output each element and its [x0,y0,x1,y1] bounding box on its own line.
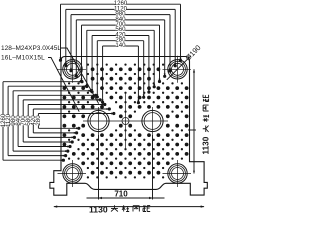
svg-text:16L–M10X15L: 16L–M10X15L [1,55,45,62]
svg-text:710: 710 [114,190,128,199]
svg-text:128–M24XP3.0X45L: 128–M24XP3.0X45L [1,45,61,52]
svg-text:280: 280 [35,115,42,126]
svg-text:1130: 1130 [89,205,108,215]
svg-text:1130: 1130 [202,136,211,154]
label 16-M10 leader [48,58,79,112]
tie bar hole bottom-right [163,160,192,187]
right 1130 dimension line [193,69,195,173]
left dimension callout lines [3,82,114,161]
platen plate outline [50,57,207,196]
tie bar hole top-right [163,56,192,83]
left dimension labels [0,113,42,127]
bottom CJK text (tie bar spacing) [111,205,150,211]
large center hole right [142,107,163,135]
dimension arrowheads [60,57,182,161]
tie bar hole top-left [58,56,87,83]
tie bar diameter leader [167,56,191,80]
svg-text:140: 140 [115,42,126,49]
referenced hole dots [59,59,182,162]
top dimension callout lines [61,4,181,102]
710 extension lines [99,135,153,200]
top dimension labels [114,0,128,49]
710 dimension arrows [99,197,153,199]
horizontal centerline [83,120,168,122]
large center hole left [88,107,109,135]
bottom 1130 arrows [54,205,204,207]
right 1130 arrows [193,69,195,173]
M10 hole grid [68,63,183,178]
M24 mounting hole grid [63,67,189,174]
right centerline tick [188,129,196,131]
label 128-M24 leader [61,48,99,104]
710 dimension line [87,197,165,199]
bottom 1130 dimension line [54,206,204,208]
svg-text:Ø190: Ø190 [183,43,202,62]
tie bar hole bottom-left [58,160,87,187]
right CJK text (tie bar spacing) [203,95,209,132]
center locating circle [122,94,129,148]
